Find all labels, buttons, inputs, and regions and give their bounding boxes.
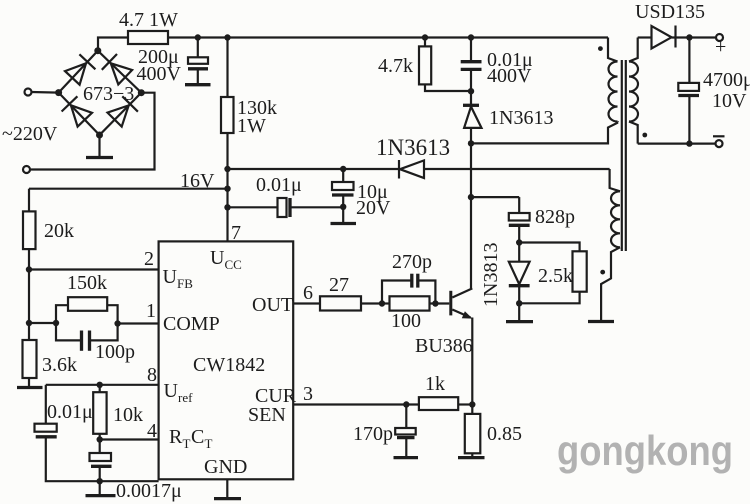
node 4700u bottom: [686, 140, 692, 146]
svg-text:T: T: [205, 436, 213, 451]
svg-text:100p: 100p: [95, 341, 135, 363]
svg-text:COMP: COMP: [163, 313, 220, 335]
ground aux winding: [588, 320, 614, 323]
wire bridge top node to rail: [98, 38, 128, 52]
node rail-200u: [195, 34, 201, 40]
wire B+ rail: [168, 36, 608, 38]
svg-text:2: 2: [144, 248, 154, 270]
svg-text:1W: 1W: [237, 115, 266, 137]
wire left rail: [28, 189, 30, 212]
capacitor 270p: [382, 251, 435, 304]
capacitor 4700u 10V: [678, 38, 750, 144]
capacitor 0.01u 400V (snubber): [461, 38, 533, 92]
svg-text:16V: 16V: [180, 170, 215, 192]
svg-text:270p: 270p: [392, 251, 432, 273]
wire 828p feed: [471, 196, 519, 198]
svg-text:20V: 20V: [356, 197, 391, 219]
resistor 20k: [23, 211, 74, 249]
node bridge top: [94, 47, 101, 54]
svg-text:27: 27: [329, 274, 349, 296]
wire Uref pin8: [46, 384, 159, 386]
svg-text:4700μ: 4700μ: [703, 69, 750, 91]
ground bridge: [86, 135, 113, 158]
svg-text:8: 8: [147, 364, 157, 386]
node comp tap: [26, 320, 32, 326]
node snubber mid: [468, 88, 474, 94]
wire to comp network: [29, 322, 56, 324]
svg-text:SEN: SEN: [248, 404, 286, 426]
svg-text:1: 1: [146, 300, 156, 322]
svg-text:828p: 828p: [535, 206, 575, 228]
wire aux feed line: [228, 168, 400, 170]
svg-text:4.7k: 4.7k: [378, 55, 413, 77]
wire UFB pin2: [29, 268, 159, 270]
resistor 4.7 1W: [128, 31, 168, 44]
terminal AC top: [25, 89, 59, 96]
capacitor 200u 400V: [137, 38, 211, 86]
node collector/primary: [468, 140, 474, 146]
node 170p tap: [403, 401, 409, 407]
svg-text:gongkong: gongkong: [557, 427, 733, 474]
resistor 27: [320, 274, 382, 311]
svg-text:150k: 150k: [67, 272, 107, 294]
node Uref-10k: [97, 382, 103, 388]
svg-text:20k: 20k: [44, 220, 74, 242]
svg-text:1k: 1k: [425, 373, 445, 395]
resistor 10k: [93, 385, 143, 440]
node Vcc cap wire: [224, 204, 230, 210]
node 1N3813 bottom: [516, 300, 522, 306]
wire primary bottom: [471, 123, 618, 144]
op-amp/IC U1 CW1842: [159, 241, 294, 479]
transformer aux winding: [601, 169, 620, 320]
resistor 2.5k: [519, 243, 587, 304]
ground IC GND: [214, 479, 241, 498]
ground 170p: [394, 456, 419, 459]
node emitter-1k: [469, 401, 475, 407]
svg-text:100: 100: [391, 310, 421, 332]
svg-text:~220V: ~220V: [2, 123, 58, 145]
svg-text:USD135: USD135: [635, 1, 705, 23]
svg-text:OUT: OUT: [252, 294, 293, 316]
ground 1N3813: [506, 303, 533, 321]
svg-text:0.85: 0.85: [487, 423, 522, 445]
bridge rectifier 673-3: [59, 51, 142, 135]
svg-text:2.5k: 2.5k: [538, 265, 573, 287]
node rail-130k: [224, 34, 230, 40]
svg-text:BU386: BU386: [415, 335, 473, 357]
diode USD135: [635, 1, 705, 49]
resistor 0.85: [465, 405, 522, 457]
svg-text:170p: 170p: [353, 423, 393, 445]
resistor 130k 1W: [221, 38, 277, 170]
ground 10u: [331, 222, 357, 225]
capacitor 0.01u (Uref): [35, 385, 159, 481]
svg-text:U: U: [164, 380, 179, 402]
svg-text:0.0017μ: 0.0017μ: [116, 480, 182, 502]
svg-text:U: U: [210, 247, 225, 269]
diode 1N3813 (down): [480, 243, 530, 308]
node pin4-10k: [97, 436, 103, 442]
node polarity dot primary: [598, 46, 603, 51]
svg-text:1N3813: 1N3813: [480, 243, 502, 307]
svg-text:GND: GND: [204, 456, 247, 478]
ground CT: [86, 481, 116, 495]
svg-text:U: U: [163, 266, 178, 288]
svg-text:1N3613: 1N3613: [489, 107, 553, 129]
node 828p tap: [468, 194, 474, 200]
node base network right: [432, 300, 438, 306]
svg-text:10k: 10k: [113, 404, 143, 426]
svg-text:7: 7: [231, 222, 241, 244]
capacitor 170p: [353, 405, 416, 457]
capacitor 828p: [509, 197, 575, 242]
wire emitter column: [471, 318, 473, 405]
transistor Q1 BU386: [415, 288, 473, 357]
svg-text:3.6k: 3.6k: [42, 354, 77, 376]
node bridge bottom: [96, 132, 103, 139]
wire Vcc column: [226, 169, 228, 241]
terminal + output: [689, 34, 726, 58]
capacitor 10u 20V: [332, 166, 391, 222]
svg-text:0.01μ: 0.01μ: [47, 401, 93, 423]
node bridge right: [138, 89, 145, 96]
diode 1N3613 (aux to Vcc): [376, 135, 610, 179]
terminal AC bottom: [23, 93, 155, 173]
node polarity dot aux: [600, 270, 605, 275]
transformer primary winding: [608, 38, 618, 123]
svg-text:CC: CC: [225, 257, 242, 272]
node 16V rail: [224, 186, 230, 192]
svg-text:400V: 400V: [487, 65, 532, 87]
svg-text:10V: 10V: [712, 90, 747, 112]
svg-text:C: C: [191, 426, 204, 448]
svg-text:ref: ref: [178, 390, 193, 405]
resistor 3.6k: [23, 340, 78, 378]
wire COMP pin1: [118, 322, 159, 324]
svg-text:400V: 400V: [137, 63, 182, 85]
svg-text:4.7 1W: 4.7 1W: [119, 9, 178, 31]
svg-text:+: +: [715, 36, 726, 58]
resistor 1k: [419, 373, 472, 410]
svg-text:T: T: [183, 436, 191, 451]
svg-text:R: R: [169, 426, 183, 448]
svg-text:FB: FB: [177, 276, 193, 291]
svg-text:CW1842: CW1842: [193, 354, 265, 376]
wire CUR SEN pin3: [293, 403, 419, 405]
wire 16V line: [29, 188, 228, 190]
node bridge left: [55, 89, 62, 96]
diode 1N3613 (snubber, up): [463, 91, 553, 143]
node rail-4.7k: [422, 34, 428, 40]
terminal - output: [638, 136, 725, 147]
node 1N3813 top: [516, 239, 522, 245]
resistor 4.7k: [378, 38, 471, 92]
node base network left: [379, 300, 385, 306]
node bottom rail: [97, 478, 103, 484]
wire RT CT pin4: [100, 438, 159, 440]
capacitor 0.01u (Vcc bypass): [228, 174, 344, 217]
wire collector column: [470, 143, 472, 288]
svg-text:673−3: 673−3: [83, 83, 134, 105]
wire rail mid: [28, 249, 30, 340]
node polarity dot secondary: [642, 133, 647, 138]
svg-text:0.01μ: 0.01μ: [256, 174, 302, 196]
node UFB tap: [26, 266, 32, 272]
svg-text:6: 6: [303, 282, 313, 304]
ground 3.6k: [17, 378, 43, 388]
capacitor 0.0017u CT: [90, 440, 182, 503]
transformer secondary winding: [629, 38, 638, 144]
svg-text:1N3613: 1N3613: [376, 135, 450, 160]
resistor 100: [382, 296, 449, 332]
wire OUT pin6: [293, 302, 320, 304]
ground 0.85: [458, 456, 485, 459]
node 16V diode-wire: [224, 166, 230, 172]
transformer core: [622, 60, 626, 251]
node diode-4700u: [686, 34, 692, 40]
svg-text:3: 3: [303, 383, 313, 405]
node rail-snubber: [468, 34, 474, 40]
resistor 150k + capacitor 100p network: [53, 272, 135, 363]
